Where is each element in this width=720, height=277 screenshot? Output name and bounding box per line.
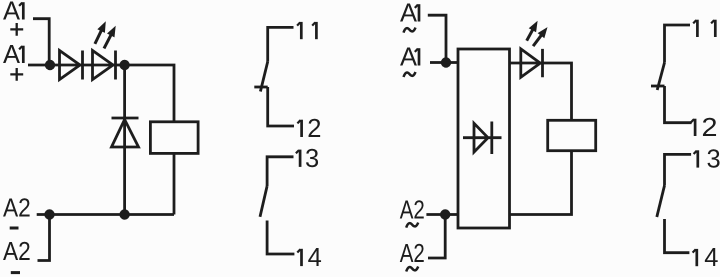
svg-text:A: A [400, 0, 417, 28]
wire right A2 terminal2 lead [428, 215, 445, 259]
contact 13-14 NO (right): moving blade [657, 186, 665, 218]
contact 13-14 NO (left): moving blade [260, 186, 267, 217]
node A1 (right, terminal 1 label) [415, 4, 419, 21]
junction dot A2 left [44, 209, 54, 219]
junction dot N2 left [119, 60, 129, 70]
label 14 (right) [693, 249, 697, 266]
svg-text:A2: A2 [400, 197, 425, 225]
LED arrow 3 [527, 21, 538, 41]
bridge rectifier U1 (rectangle) [458, 49, 510, 228]
node A1 (left, terminal 2 label) [19, 46, 23, 63]
contact 11-12 NC (left): moving blade [260, 62, 267, 92]
tilde under right A1 terminal 2 [404, 72, 416, 77]
tilde under right A2 terminal 1 [406, 223, 418, 228]
label 11 (left) [297, 22, 316, 39]
minus sign under left A2 terminal 1 [10, 227, 19, 230]
LED arrow 2 [104, 26, 116, 49]
wire A2 terminal2 lead [38, 215, 50, 261]
diode D1 (series diode) [60, 51, 83, 80]
wire coil bottom to rectifier bottom right [510, 151, 572, 215]
contact 11-12 NC (left): terminal 12 lead [268, 87, 294, 126]
node A2 (right, terminal 2 label) [400, 240, 425, 268]
node A2 (right, terminal 1 label) [400, 197, 425, 225]
contact 11-12 NC (right): seat tick [651, 85, 665, 88]
label 12 (right) [691, 119, 695, 136]
wire freewheel branch vertical [123, 65, 126, 215]
contact 13-14 NO (right): terminal 14 lead [665, 219, 690, 253]
relay coil K1 (left) [150, 122, 198, 154]
plus sign under left A1 terminal 1 [10, 23, 23, 36]
wire A1 terminal2 lead [28, 64, 50, 67]
svg-text:A2: A2 [400, 240, 425, 268]
relay coil K2 (right) [548, 120, 596, 150]
svg-text:3: 3 [305, 145, 319, 173]
LED D4 (right, diode with light arrows) [521, 49, 543, 77]
node A2 (left, terminal 1 label) [3, 195, 31, 223]
contact 11-12 NC (right): terminal 11 lead [665, 25, 691, 63]
svg-text:A: A [3, 0, 20, 26]
contact 11-12 NC (left): seat tick [254, 86, 267, 89]
svg-text:A2: A2 [3, 238, 31, 266]
tilde under right A2 terminal 2 [406, 267, 418, 272]
minus sign under left A2 terminal 2 [11, 271, 20, 274]
junction dot freewheel bottom [119, 209, 129, 219]
wire main horizontal through diodes to coil corner [50, 65, 174, 122]
diode D3 (freewheel diode, cathode bar top, triangle pointing up) [112, 118, 139, 147]
wire stub into rectifier bottom left [445, 213, 458, 216]
wire A1 terminal1 lead [33, 19, 49, 65]
contact 11-12 NC (right): terminal 12 lead [665, 86, 692, 123]
svg-text:3: 3 [707, 146, 720, 174]
svg-text:2: 2 [702, 114, 718, 142]
contact 13-14 NO (left): terminal 13 lead [267, 157, 293, 186]
contact 11-12 NC (right): moving blade [657, 63, 664, 90]
svg-text:A2: A2 [3, 195, 31, 223]
svg-text:A: A [3, 41, 20, 69]
contact 13-14 NO (right): terminal 13 lead [665, 154, 692, 185]
svg-text:A: A [400, 44, 417, 72]
node A1 (right, terminal 2 label) [415, 48, 419, 65]
svg-text:4: 4 [308, 244, 322, 272]
svg-text:4: 4 [704, 244, 718, 272]
junction dot N1 left [45, 60, 55, 70]
label 13 (left) [296, 150, 300, 167]
wire right A2 terminal1 lead [426, 213, 445, 216]
plus sign under left A1 terminal 2 [10, 68, 23, 81]
svg-text:2: 2 [307, 115, 321, 143]
label 13 (right) [694, 150, 698, 167]
label 12 (left) [297, 120, 301, 137]
wire rectifier to LED branch top [510, 63, 572, 120]
wire right A1 terminal1 lead [428, 15, 446, 62]
junction dot right top [441, 57, 451, 67]
wire bottom horizontal left circuit [37, 213, 174, 216]
junction dot right bottom [440, 209, 450, 219]
label 11 (right) [693, 20, 715, 37]
wire coil bottom lead [173, 153, 176, 214]
wire stub into rectifier top left [446, 61, 458, 64]
contact 11-12 NC (left): terminal 11 lead [268, 27, 294, 61]
label 14 (left) [297, 249, 301, 266]
node A1 (left, terminal 1 label) [19, 2, 23, 19]
tilde under right A1 terminal 1 [404, 28, 416, 33]
contact 13-14 NO (left): terminal 14 lead [267, 221, 294, 255]
LED arrow 4 [533, 27, 547, 46]
LED arrow 1 [95, 21, 106, 44]
LED D2 (diode with light arrows) [93, 51, 116, 80]
diode inside rectifier [463, 122, 502, 155]
wire right A1 terminal2 lead [430, 61, 446, 64]
node A2 (left, terminal 2 label) [3, 238, 31, 266]
